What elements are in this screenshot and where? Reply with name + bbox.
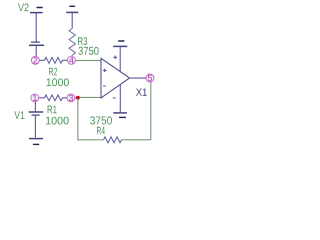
plus supply marker	[113, 56, 117, 60]
node 5	[146, 74, 154, 82]
battery V2	[29, 8, 44, 57]
value 1000 (R2)	[47, 78, 69, 86]
value 3750 (R3)	[78, 47, 98, 55]
resistor R1	[39, 95, 67, 101]
wire bottom right run	[122, 139, 152, 141]
wire bottom left run	[77, 139, 103, 141]
node 2	[31, 56, 39, 64]
label V1	[14, 111, 24, 119]
value 1000 (R1)	[46, 117, 69, 125]
battery V1	[29, 102, 43, 144]
node 4	[67, 56, 75, 64]
op-amp V- supply battery	[113, 85, 127, 118]
label V2	[18, 3, 29, 11]
wire node4 to op-amp noninverting input	[76, 60, 101, 62]
op-amp X1 triangle	[101, 58, 130, 98]
junction dot	[76, 96, 80, 100]
inverting input marker	[103, 85, 106, 87]
noninverting input marker	[103, 69, 106, 72]
op-amp V+ supply battery	[113, 41, 127, 72]
label R4	[97, 127, 105, 135]
wire node5 down	[150, 82, 152, 140]
minus supply marker	[113, 97, 116, 99]
label X1	[136, 89, 147, 96]
label R3	[78, 37, 87, 45]
label R2	[49, 68, 57, 76]
node 1	[31, 94, 39, 102]
value 3750 (R4)	[90, 116, 112, 124]
wire junction down	[77, 100, 79, 141]
wire op-amp output to node 5	[130, 77, 147, 79]
resistor R2	[40, 57, 68, 63]
resistor R4	[104, 137, 122, 143]
wire node3 to junction	[75, 97, 78, 99]
label R1	[48, 106, 57, 114]
battery B2 (negative rail of R3)	[66, 6, 78, 28]
wire junction to op-amp inverting input	[80, 96, 101, 98]
resistor R3	[69, 29, 75, 56]
node 3	[67, 94, 75, 102]
